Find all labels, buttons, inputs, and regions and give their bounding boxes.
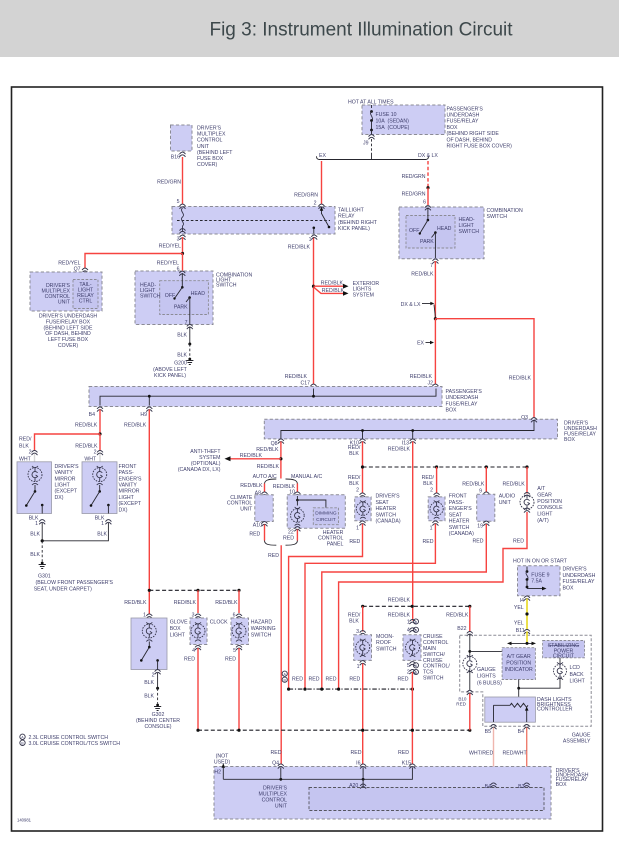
- pin Q7 connector: [74, 267, 88, 273]
- tag DX & LX arrow: [401, 302, 436, 318]
- svg-text:(SEDAN): (SEDAN): [388, 119, 410, 125]
- svg-text:DRIVER'S: DRIVER'S: [563, 567, 588, 573]
- svg-text:MIRROR: MIRROR: [55, 476, 76, 482]
- label: gauge lights (6 bulbs): [477, 667, 502, 687]
- svg-text:RELAY: RELAY: [338, 214, 355, 220]
- pin I4 connector: [520, 596, 530, 604]
- label: driver's seat heater switch (canada): [376, 494, 401, 525]
- hazard warning switch box: [231, 618, 249, 645]
- svg-text:SWITCH: SWITCH: [449, 525, 470, 531]
- svg-text:SEAT, UNDER CARPET): SEAT, UNDER CARPET): [34, 587, 92, 593]
- svg-text:(BEHIND RIGHT: (BEHIND RIGHT: [338, 220, 378, 226]
- pin B22 connector: [467, 631, 473, 636]
- pin A22 connector: [71, 276, 88, 282]
- svg-text:RED: RED: [398, 750, 409, 756]
- header bar: [0, 0, 619, 57]
- svg-text:WHT/RED: WHT/RED: [469, 751, 493, 757]
- svg-text:TAILLIGHT: TAILLIGHT: [338, 208, 365, 214]
- footnote A 2.3L cruise control switch: [20, 734, 108, 741]
- svg-text:HEATER: HEATER: [376, 506, 397, 512]
- audio unit box: [477, 494, 495, 521]
- pin K15 connector: [398, 750, 415, 769]
- label: exterior lights system: [353, 281, 380, 298]
- svg-text:OF DASH, BEHIND: OF DASH, BEHIND: [447, 137, 493, 143]
- wire RED/BLK to climate control A8: [240, 483, 264, 496]
- taillight relay ctrl inner box: [73, 280, 98, 309]
- wire RED merged long run to Q4: [268, 545, 281, 764]
- svg-text:DRIVER'S: DRIVER'S: [55, 464, 80, 470]
- wire RED/WHT B4 to B3: [503, 728, 528, 784]
- wire RED/BLK to exterior lights arrow 2: [314, 287, 349, 296]
- label: passenger's underdash fuse/relay box: [446, 389, 483, 414]
- svg-text:YEL: YEL: [514, 621, 524, 627]
- wire RED/BLK to moonroof switch: [348, 606, 363, 635]
- svg-text:1: 1: [407, 619, 410, 625]
- svg-text:RED: RED: [351, 750, 362, 756]
- svg-text:RED/BLK: RED/BLK: [256, 447, 279, 453]
- bus RED/BLK dashed to clock and hazard: [149, 589, 240, 592]
- svg-text:SWITCH: SWITCH: [216, 283, 237, 289]
- svg-text:RED/BLK: RED/BLK: [509, 375, 532, 381]
- driver's seat heater switch box: [355, 497, 371, 521]
- combination switch right outer box: [399, 207, 484, 259]
- driver's multiplex control unit left box: [30, 272, 102, 311]
- label: taillight relay (behind right kick panel): [338, 208, 378, 233]
- node B4 split: [98, 432, 101, 435]
- svg-text:BOX: BOX: [556, 782, 567, 788]
- svg-text:LCD: LCD: [570, 665, 581, 671]
- pin 1 connector driver's seat heater: [349, 521, 365, 545]
- svg-text:7.5A: 7.5A: [531, 579, 542, 585]
- label: A/T gear position console light: [537, 486, 563, 524]
- svg-text:KICK PANEL): KICK PANEL): [154, 373, 186, 379]
- wire RED clock down: [197, 648, 199, 730]
- svg-text:MULTIPLEX: MULTIPLEX: [197, 132, 226, 138]
- svg-text:DIMMING: DIMMING: [315, 511, 337, 517]
- svg-text:HAZARD: HAZARD: [251, 619, 273, 625]
- svg-text:RED/BLK: RED/BLK: [240, 453, 263, 459]
- yellow feed arrows in gauge: [507, 632, 536, 646]
- svg-text:VANITY: VANITY: [119, 483, 138, 489]
- label C17: [285, 374, 310, 386]
- front passenger's seat heater switch box: [428, 497, 445, 521]
- svg-text:MANUAL A/C: MANUAL A/C: [291, 474, 322, 480]
- pin 7 connector left switch: [185, 320, 193, 329]
- multiplex inner box: [309, 788, 544, 811]
- pin 2 connector driver's seat heater: [360, 493, 366, 498]
- svg-text:(NOT: (NOT: [216, 754, 230, 760]
- svg-text:AUDIO: AUDIO: [499, 493, 515, 499]
- svg-text:INDICATOR: INDICATOR: [505, 667, 533, 673]
- svg-text:RED/WHT: RED/WHT: [503, 751, 528, 757]
- svg-text:FUSE/RELAY: FUSE/RELAY: [563, 579, 595, 585]
- svg-text:RED/BLK: RED/BLK: [388, 446, 411, 452]
- svg-text:1: 1: [143, 612, 146, 618]
- svg-text:RED: RED: [309, 677, 320, 683]
- internal bus multiplex: [223, 768, 412, 787]
- cruise control main switch box: [403, 635, 421, 661]
- svg-text:7: 7: [185, 320, 188, 326]
- node headlight feed junction: [434, 317, 437, 320]
- label: head-light switch: [140, 283, 161, 300]
- pin B16 connector: [171, 152, 186, 161]
- wire BLK glove box to G302: [144, 673, 159, 704]
- label: hazard warning switch: [251, 619, 276, 638]
- svg-text:G301: G301: [38, 574, 51, 580]
- svg-text:K15: K15: [402, 760, 411, 766]
- svg-text:RED/BLK: RED/BLK: [124, 600, 147, 606]
- svg-text:FUSE BOX: FUSE BOX: [197, 156, 224, 162]
- lamp clock: [191, 622, 205, 641]
- pin C17 connector: [311, 384, 317, 389]
- svg-text:SEAT: SEAT: [376, 500, 390, 506]
- svg-text:SWITCH: SWITCH: [140, 294, 161, 300]
- svg-text:CONSOLE: CONSOLE: [537, 505, 563, 511]
- wire RED/BLK to heater panel 10: [273, 484, 298, 496]
- label: combination light switch: [216, 273, 252, 289]
- lamp driver's vanity: [28, 466, 42, 485]
- svg-text:PASSENGER'S: PASSENGER'S: [446, 389, 483, 395]
- pin Q4 connector: [271, 750, 284, 769]
- svg-text:ENGER'S: ENGER'S: [449, 506, 472, 512]
- driver's vanity mirror light box: [17, 462, 52, 514]
- label: driver's multiplex control unit: [42, 283, 71, 306]
- label: front passenger's seat heater switch (canada): [449, 494, 474, 538]
- svg-text:A/T GEAR: A/T GEAR: [507, 654, 531, 660]
- wire RED moonroof to I6: [362, 664, 364, 765]
- pin B10 connector: [456, 690, 473, 706]
- svg-text:RIGHT FUSE BOX COVER): RIGHT FUSE BOX COVER): [447, 144, 513, 150]
- label: heater control panel: [318, 530, 344, 547]
- svg-text:B5: B5: [485, 729, 491, 735]
- pin 9 connector audio: [483, 492, 489, 497]
- svg-text:UNDERDASH: UNDERDASH: [563, 573, 596, 579]
- pin B11 connector: [524, 629, 530, 634]
- svg-text:RED/BLK: RED/BLK: [446, 612, 469, 618]
- passenger's underdash fuse/relay box (long box 1): [89, 387, 442, 407]
- svg-text:BLK: BLK: [177, 333, 187, 339]
- svg-text:LIGHT: LIGHT: [55, 483, 71, 489]
- glove box light box: [131, 618, 167, 670]
- svg-text:BOX: BOX: [446, 408, 457, 414]
- passenger fuse box top: [362, 105, 445, 135]
- svg-text:RED/: RED/: [19, 437, 32, 443]
- lamp glove box: [142, 622, 156, 641]
- wire RED cruise to K15: [411, 672, 413, 765]
- label: driver's underdash fuse/relay box: [564, 421, 597, 444]
- svg-text:1: 1: [101, 521, 104, 527]
- label: head-light switch right: [459, 217, 480, 235]
- svg-text:DRIVER'S: DRIVER'S: [376, 494, 401, 500]
- headlight switch contacts right: [409, 206, 452, 258]
- svg-text:CIRCUIT: CIRCUIT: [553, 654, 575, 660]
- svg-text:1: 1: [35, 521, 38, 527]
- svg-text:RED/BLK: RED/BLK: [240, 483, 263, 489]
- wire RED/BLK B4 down: [75, 410, 100, 435]
- label: driver's vanity mirror light: [55, 464, 80, 501]
- pin 2 connector driver's vanity: [19, 450, 38, 463]
- wire RED/BLK to anti-theft arrow: [225, 453, 281, 461]
- wire RED/GRN to combination switch pin 6: [402, 188, 428, 206]
- headlight switch inner box right: [406, 216, 455, 249]
- svg-text:RED/BLK: RED/BLK: [75, 443, 98, 449]
- bus RED dashed row 3: [196, 729, 471, 732]
- svg-text:Fig 3: Instrument Illumination: Fig 3: Instrument Illumination Circuit: [209, 20, 513, 41]
- node bus1 left end: [361, 465, 364, 468]
- label: climate control unit: [227, 495, 253, 513]
- svg-text:G200: G200: [174, 361, 187, 367]
- label fuse 10 values: [376, 112, 410, 131]
- svg-text:B4: B4: [518, 729, 524, 735]
- dimming circuit box: [313, 508, 338, 525]
- wire RED/BLK bus to audio unit: [462, 467, 486, 495]
- svg-text:H9: H9: [140, 412, 147, 418]
- svg-text:OFF: OFF: [409, 228, 419, 234]
- pin J2 connector: [432, 384, 438, 389]
- node RED/YEL junction: [181, 252, 184, 255]
- svg-text:FUSE/RELAY: FUSE/RELAY: [447, 119, 479, 125]
- wire lamp returns to controller: [517, 678, 560, 705]
- svg-text:FUSE 9: FUSE 9: [531, 572, 549, 578]
- wire RED 22 down: [296, 530, 298, 541]
- wire RED front seat heater return: [305, 524, 435, 689]
- pin B4 connector: [89, 407, 103, 418]
- svg-text:RED/BLK: RED/BLK: [388, 612, 411, 618]
- lamp front seat heater: [430, 501, 443, 519]
- svg-text:LIGHT: LIGHT: [537, 512, 553, 518]
- wire RED/BLK B22 drop: [457, 606, 470, 632]
- svg-text:MIRROR: MIRROR: [119, 489, 140, 495]
- internal bus long box 1: [100, 389, 436, 406]
- node BLK junction G301: [41, 539, 44, 542]
- pin 1 connector moonroof: [349, 661, 365, 683]
- svg-text:1: 1: [430, 525, 433, 531]
- pin B4 connector gauge: [518, 725, 530, 736]
- option tag B on long wire: [282, 677, 287, 682]
- svg-text:RED: RED: [283, 535, 294, 541]
- relay contact arm: [313, 207, 331, 234]
- svg-text:RED: RED: [456, 701, 466, 706]
- pin A20 connector: [349, 783, 366, 789]
- node bus1 console light: [525, 465, 528, 468]
- bus RED/BLK dashed row 1: [363, 466, 528, 468]
- label: passenger's underdash fuse/relay box: [447, 106, 513, 149]
- svg-text:(BEHIND LEFT: (BEHIND LEFT: [197, 150, 233, 156]
- svg-text:J9: J9: [363, 140, 369, 146]
- svg-text:BOX: BOX: [447, 125, 458, 131]
- headlight switch inner box left: [160, 281, 209, 315]
- svg-text:A20: A20: [349, 783, 358, 789]
- fuse 10 symbol: [370, 105, 373, 134]
- wire WHT driver's vanity: [34, 454, 36, 462]
- svg-text:RED/BLK: RED/BLK: [288, 245, 311, 251]
- wire RED/BLK junction to O3 riser: [435, 319, 534, 418]
- svg-text:5: 5: [233, 648, 236, 654]
- wire RED audio return: [322, 524, 487, 689]
- svg-text:BOX: BOX: [563, 585, 574, 591]
- svg-text:RED/BLK: RED/BLK: [322, 288, 345, 294]
- multiplex control unit B16 box: [171, 125, 193, 151]
- svg-text:3: 3: [177, 236, 180, 242]
- wire RED/GRN B16 to taillight relay pin 5: [157, 157, 182, 205]
- svg-text:HEAD: HEAD: [191, 291, 206, 297]
- svg-text:COVER): COVER): [58, 343, 78, 349]
- svg-text:POSITION: POSITION: [506, 661, 531, 667]
- driver's underdash fuse box (fuse 9): [518, 566, 561, 596]
- lamp gauge lights: [463, 655, 477, 690]
- lamp hazard: [232, 622, 246, 641]
- svg-text:RED/GRN: RED/GRN: [294, 193, 318, 199]
- svg-text:RED/BLK: RED/BLK: [174, 600, 197, 606]
- svg-text:1: 1: [356, 525, 359, 531]
- pin 2 connector glove box: [152, 670, 161, 679]
- driver's underdash fuse/relay box (long box 2): [264, 419, 557, 439]
- svg-text:RED/BLK: RED/BLK: [321, 280, 344, 286]
- svg-text:I4: I4: [520, 598, 524, 604]
- svg-text:5: 5: [407, 663, 410, 669]
- ground G302: [136, 704, 180, 731]
- svg-text:RED/GRN: RED/GRN: [402, 192, 426, 198]
- svg-text:BLK: BLK: [97, 532, 107, 538]
- label: dash lights brightness controller: [537, 697, 573, 713]
- svg-text:GEAR: GEAR: [537, 492, 552, 498]
- rheostat inside controller: [494, 703, 529, 722]
- label: gauge assembly: [563, 733, 591, 745]
- svg-text:WARNING: WARNING: [251, 626, 276, 632]
- svg-text:BLK: BLK: [144, 693, 154, 699]
- svg-text:CTRL: CTRL: [79, 298, 93, 304]
- svg-text:BLK: BLK: [19, 443, 29, 449]
- svg-text:RED: RED: [349, 539, 360, 545]
- wire RED/BLK pin 7 down: [411, 261, 435, 319]
- lamp driver's seat heater: [356, 501, 369, 519]
- svg-text:CIRCUIT: CIRCUIT: [316, 517, 336, 523]
- wire RED/BLK to clock: [174, 590, 198, 618]
- heater panel internal wiring: [296, 496, 326, 508]
- svg-text:Q4: Q4: [272, 760, 279, 766]
- svg-text:RED/BLK: RED/BLK: [411, 271, 434, 277]
- svg-text:C17: C17: [300, 380, 310, 386]
- svg-text:RED: RED: [292, 677, 303, 683]
- svg-text:(CANADA): (CANADA): [376, 519, 401, 525]
- fuse 9 symbol: [526, 567, 547, 591]
- lamp moonroof: [356, 639, 370, 657]
- svg-text:RED: RED: [473, 538, 484, 544]
- pin 7 connector right switch: [430, 259, 438, 269]
- pin B3 connector multiplex: [518, 783, 530, 790]
- svg-text:RED: RED: [326, 677, 337, 683]
- pin 2 connector taillight relay: [319, 204, 325, 209]
- wire WHT/RED B5 to B4: [469, 728, 494, 784]
- svg-text:3.0L CRUISE CONTROL/TCS SWITCH: 3.0L CRUISE CONTROL/TCS SWITCH: [29, 741, 121, 747]
- svg-text:RED/YEL: RED/YEL: [159, 244, 181, 250]
- pin 3 connector clock: [195, 614, 201, 619]
- wire BLK to G200: [177, 327, 191, 359]
- svg-text:SWITCH: SWITCH: [376, 646, 397, 652]
- svg-text:SWITCH: SWITCH: [459, 229, 480, 235]
- pin 2 connector front vanity: [84, 450, 103, 463]
- gauge assembly outer box: [460, 635, 592, 726]
- svg-text:BLK: BLK: [349, 451, 359, 457]
- svg-text:B22: B22: [457, 626, 466, 632]
- pin K10 connector: [350, 439, 366, 447]
- internal bus long box 2: [281, 421, 534, 439]
- driver's multiplex control unit bottom outer box: [214, 767, 551, 820]
- pin 19 connector audio: [473, 521, 490, 544]
- svg-text:B4: B4: [485, 784, 491, 790]
- svg-text:(CANADA): (CANADA): [449, 531, 474, 537]
- svg-text:HOT AT ALL TIMES: HOT AT ALL TIMES: [348, 100, 394, 106]
- pin A10 connector: [249, 522, 267, 538]
- label: combination switch: [487, 208, 523, 220]
- svg-text:SWITCH: SWITCH: [376, 512, 397, 518]
- wire BLK driver's vanity down: [30, 523, 42, 541]
- pin O3 connector: [521, 415, 537, 422]
- svg-text:UNDERDASH: UNDERDASH: [446, 395, 479, 401]
- dash lights brightness controller box: [485, 697, 536, 722]
- svg-text:2: 2: [356, 487, 359, 493]
- svg-text:RED: RED: [249, 532, 260, 538]
- pin 1 connector front seat heater: [423, 521, 439, 545]
- svg-text:RED/GRN: RED/GRN: [402, 174, 426, 180]
- svg-text:RED: RED: [184, 657, 195, 663]
- label: driver's multiplex control unit (behind left fuse box cover): [197, 126, 233, 169]
- svg-text:RED: RED: [423, 539, 434, 545]
- bus RED/BLK dashed row 2: [361, 598, 471, 619]
- pin I6 connector: [351, 750, 367, 769]
- wire RED/BLK Q8 down: [256, 442, 281, 479]
- moonroof switch box: [354, 635, 372, 661]
- svg-text:RED/BLK: RED/BLK: [388, 598, 411, 604]
- svg-text:4: 4: [407, 628, 410, 634]
- svg-text:RED: RED: [271, 750, 282, 756]
- wire RED driver's seat heater return: [289, 524, 363, 689]
- svg-text:BACK: BACK: [570, 672, 585, 678]
- lamp cruise switch: [406, 639, 420, 657]
- wire RED/BLK taillight relay pin1 down to C17: [288, 237, 314, 384]
- wire RED/BLK to hazard switch: [215, 590, 239, 618]
- label fuse 9 7.5A: [531, 572, 549, 584]
- label: glove box light: [170, 619, 188, 638]
- svg-text:FRONT: FRONT: [119, 464, 138, 470]
- pin 5 connector hazard: [225, 645, 242, 662]
- splitter braces A/C options: [265, 479, 298, 484]
- svg-text:(EXCEPT: (EXCEPT: [55, 489, 78, 495]
- pin 3 connector: [177, 235, 186, 242]
- wire YEL I4 to B11: [514, 599, 529, 635]
- gauge internal feed node: [468, 634, 502, 656]
- label: moon-roof switch: [376, 634, 397, 652]
- wire RED/BLK to driver's vanity: [19, 434, 100, 451]
- ground G200: [153, 358, 193, 379]
- wire BLK to G301: [30, 541, 42, 562]
- wire RED/GRN EX branch: [294, 161, 321, 207]
- svg-text:6: 6: [423, 199, 426, 205]
- svg-text:LIGHT: LIGHT: [170, 632, 186, 638]
- svg-text:2: 2: [314, 201, 317, 207]
- climate control unit box: [255, 495, 273, 522]
- wire RED/BLK to exterior lights arrow 1: [314, 280, 349, 288]
- svg-text:RED/BLK: RED/BLK: [410, 374, 433, 380]
- svg-text:15A: 15A: [376, 125, 386, 131]
- front passenger's vanity mirror light box: [82, 462, 117, 514]
- svg-text:CLOCK: CLOCK: [210, 619, 228, 625]
- svg-text:BLK: BLK: [349, 618, 359, 624]
- svg-text:RED: RED: [349, 677, 360, 683]
- svg-text:RED/BLK: RED/BLK: [462, 482, 485, 488]
- lamp A/T gear position console light: [520, 492, 534, 512]
- svg-text:UNIT: UNIT: [58, 300, 71, 306]
